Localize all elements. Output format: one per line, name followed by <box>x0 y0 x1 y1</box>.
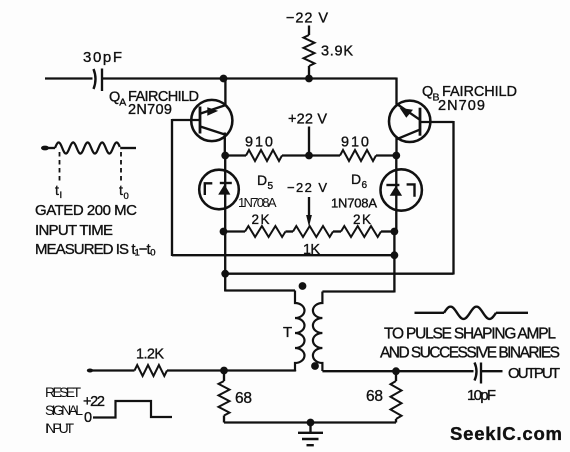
svg-text:2N709: 2N709 <box>438 98 485 114</box>
svg-text:68: 68 <box>235 390 252 407</box>
svg-text:10pF: 10pF <box>467 387 496 404</box>
svg-text:0: 0 <box>84 410 92 426</box>
svg-text:+22 V: +22 V <box>288 112 327 128</box>
svg-text:RESET: RESET <box>45 384 81 400</box>
svg-text:68: 68 <box>366 388 383 405</box>
svg-text:I: I <box>60 190 63 201</box>
svg-text:D: D <box>257 172 267 188</box>
svg-text:INPUT: INPUT <box>45 420 74 436</box>
svg-text:3.9K: 3.9K <box>321 44 353 60</box>
svg-text:910: 910 <box>341 135 369 151</box>
svg-text:6: 6 <box>362 180 368 191</box>
svg-text:2K: 2K <box>252 212 270 227</box>
svg-text:GATED 200 MC: GATED 200 MC <box>35 202 137 219</box>
svg-text:1N708A: 1N708A <box>238 195 277 210</box>
svg-text:TO PULSE SHAPING AMPL: TO PULSE SHAPING AMPL <box>384 326 556 343</box>
svg-text:SIGNAL: SIGNAL <box>45 402 83 418</box>
svg-text:A: A <box>119 97 126 109</box>
svg-text:D: D <box>351 171 361 187</box>
svg-text:OUTPUT: OUTPUT <box>508 365 560 382</box>
svg-text:2N709: 2N709 <box>128 102 172 118</box>
svg-text:−22 V: −22 V <box>286 11 328 27</box>
svg-text:INPUT TIME: INPUT TIME <box>35 222 113 239</box>
svg-text:5: 5 <box>268 181 274 192</box>
svg-text:2K: 2K <box>353 212 371 227</box>
svg-text:t: t <box>55 182 59 198</box>
svg-text:910: 910 <box>245 135 273 151</box>
svg-text:+22: +22 <box>83 394 105 410</box>
svg-text:T: T <box>283 324 292 341</box>
svg-text:SeekIC.com: SeekIC.com <box>450 423 562 444</box>
svg-text:t: t <box>119 182 123 198</box>
svg-text:1N708A: 1N708A <box>331 196 377 211</box>
svg-text:−22 V: −22 V <box>287 180 327 195</box>
svg-text:0: 0 <box>124 191 129 202</box>
svg-text:MEASURED IS t₁−t₀: MEASURED IS t₁−t₀ <box>35 241 156 258</box>
svg-text:1.2K: 1.2K <box>136 347 164 363</box>
svg-text:30pF: 30pF <box>83 49 122 66</box>
svg-text:1K: 1K <box>303 242 320 258</box>
svg-text:AND SUCCESSIVE BINARIES: AND SUCCESSIVE BINARIES <box>380 345 560 362</box>
